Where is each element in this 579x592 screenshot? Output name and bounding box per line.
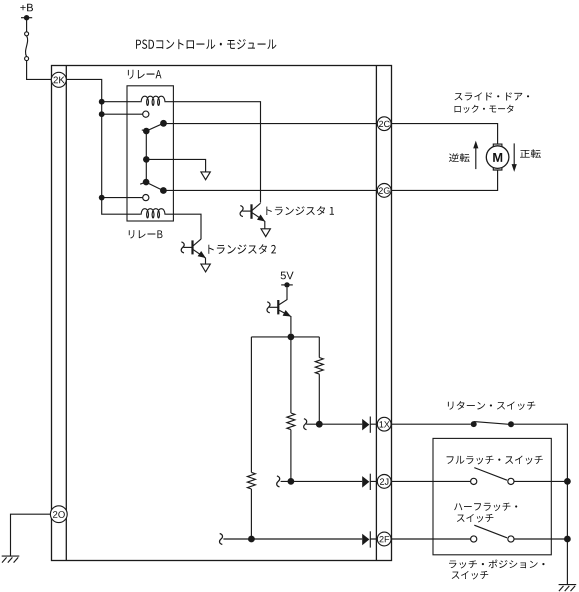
junction 2J row <box>288 478 295 485</box>
relay common link wire <box>145 131 147 182</box>
relay A arm contact dot <box>160 120 167 127</box>
wire half-latch switch to right rail <box>514 538 567 540</box>
module right inner wall <box>375 66 377 561</box>
junction relay feed / contact B <box>99 195 105 201</box>
text label: 逆転 <box>449 153 470 162</box>
+B terminal tick <box>21 17 32 19</box>
text label: リターン・スイッチ <box>448 401 535 410</box>
text label: ラッチ・ポジション・ <box>449 560 545 569</box>
diode D2 cathode bar <box>369 474 371 490</box>
pin 2O <box>53 511 65 518</box>
connector 1X circle <box>377 417 391 431</box>
wire full-latch switch to right rail <box>514 480 567 482</box>
motor arrow up line <box>475 147 477 169</box>
junction relay feed / coil A <box>99 99 105 105</box>
text label: スイッチ <box>452 571 488 580</box>
half-latch switch right contact <box>508 536 514 542</box>
wire 2C to motor <box>391 124 498 146</box>
wire relay feed to coil A <box>102 101 141 103</box>
wire +B feed down to 2K <box>27 18 52 79</box>
wire return switch to right rail, down to ground <box>514 424 568 584</box>
motor circle M <box>486 146 509 169</box>
wire 2G row inside module <box>163 189 377 191</box>
wire left branch + resistor R1 leads <box>250 337 252 539</box>
wire coil A to transistor 1 collector <box>166 102 261 203</box>
transistor 2 base lead <box>184 246 193 248</box>
relay A pivot dot <box>143 128 150 135</box>
diode D1 at 1X <box>362 419 369 431</box>
wire resistor-top node row <box>251 336 319 338</box>
text label: ロック・モータ <box>454 105 513 113</box>
pin 1X <box>380 421 390 427</box>
relay coil B <box>140 209 165 218</box>
full-latch switch right contact <box>508 478 514 484</box>
wire relay feed to contact A <box>102 113 143 115</box>
half-latch switch left contact <box>471 536 477 542</box>
chassis ground bottom-left <box>2 556 20 563</box>
motor arrow down line <box>513 143 515 165</box>
pin 2K <box>54 77 65 84</box>
chassis ground bottom-right <box>559 585 577 592</box>
motor arrow up head <box>473 141 478 149</box>
wire 1X to return switch <box>391 423 471 425</box>
junction right rail / half-latch <box>564 536 571 543</box>
junction relay common / ground tap <box>143 156 150 163</box>
full-latch switch arm <box>474 468 507 481</box>
wire 2F row <box>223 538 377 540</box>
pin 2C <box>379 121 390 127</box>
wire right branch + resistor R3 leads <box>318 337 320 424</box>
transistor 1 emitter arrow <box>257 215 265 222</box>
junction right rail / full-latch <box>564 478 571 485</box>
relay coil A <box>140 96 165 105</box>
return switch left dot <box>471 421 477 427</box>
+B terminal dot <box>24 15 29 20</box>
relay A fixed contact circle <box>143 111 149 117</box>
return switch arm <box>474 422 511 425</box>
motor letter M <box>493 153 502 162</box>
relay B arm contact dot <box>160 187 167 194</box>
module left inner wall <box>65 66 67 561</box>
wire 5V to transistor collector <box>279 288 287 305</box>
transistor 2 emitter arrow <box>198 251 206 258</box>
wire motor to 2G <box>391 170 498 191</box>
connector 2J circle <box>377 475 391 489</box>
connector 2G circle <box>377 184 391 198</box>
text label: ハーフラッチ・ <box>454 503 517 512</box>
relay A arm <box>142 123 164 131</box>
connector 2K circle <box>51 72 66 87</box>
half-latch switch arm <box>474 525 507 538</box>
diode D3 at 2F <box>362 534 369 546</box>
diode D1 cathode bar <box>369 417 371 433</box>
relay B arm <box>140 182 163 191</box>
break squiggle transistor 5V base <box>267 302 270 313</box>
text label: PSDコントロール・モジュール <box>136 39 276 49</box>
motor body rects <box>493 144 502 170</box>
wire relay feed to contact B <box>102 197 143 199</box>
ground triangle below transistor 1 <box>261 229 270 237</box>
break squiggle 1X row <box>304 419 307 430</box>
text label: フルラッチ・スイッチ <box>447 456 543 465</box>
transistor 1 collector/emitter <box>252 203 264 228</box>
break squiggle 2J row <box>277 476 280 487</box>
latch position switch box <box>433 438 551 554</box>
wire 2C row inside module <box>163 123 377 125</box>
motor arrow down head <box>512 164 517 172</box>
text label: 正転 <box>520 149 541 158</box>
resistor R3 <box>315 358 323 375</box>
transistor 1 base lead <box>242 210 251 212</box>
pin 2J <box>380 478 388 484</box>
node 5V <box>281 272 294 280</box>
text label: リレーA <box>128 70 162 79</box>
wire coil B to transistor 2 collector <box>166 214 202 239</box>
text label: スイッチ <box>457 514 493 523</box>
relay B pivot dot <box>143 179 150 186</box>
resistor R1 <box>247 472 255 489</box>
full-latch switch left contact <box>471 478 477 484</box>
text label: トランジスタ 2 <box>208 244 276 254</box>
pin 2G <box>379 187 390 193</box>
diode D2 at 2J <box>362 476 369 488</box>
ground triangle below transistor 2 <box>201 264 210 272</box>
break squiggle transistor 2 base <box>181 242 184 253</box>
junction relay feed / contact A <box>99 111 105 117</box>
transistor 5V emitter <box>279 310 291 333</box>
diode D3 cathode bar <box>369 531 371 547</box>
connector 2C circle <box>377 117 391 131</box>
junction node resistor network <box>288 334 295 341</box>
connector 2F circle <box>377 532 391 546</box>
transistor 5V emitter arrow <box>283 310 291 317</box>
wire relay common to ground <box>146 159 205 172</box>
relay B fixed contact circle <box>143 195 149 201</box>
break squiggle 2F row <box>219 534 222 545</box>
5V terminal dot <box>284 282 289 287</box>
text label: トランジスタ 1 <box>266 206 334 215</box>
wire 2F to half-latch switch <box>391 538 471 540</box>
text label: リレーB <box>129 230 163 238</box>
wire 1X row <box>306 423 377 425</box>
wire 2J to full-latch switch <box>391 480 471 482</box>
wire 2J row <box>281 480 378 482</box>
connector 2O circle <box>50 506 67 523</box>
fusible link wavy wire <box>26 36 28 57</box>
transistor 5V base lead <box>269 306 277 308</box>
transistor 2 base bar <box>191 240 193 254</box>
relay box <box>127 86 173 221</box>
fuse bottom circle <box>25 57 29 61</box>
5V terminal tick <box>281 284 293 286</box>
wire middle branch + resistor R2 leads <box>290 337 292 482</box>
node +B <box>20 4 33 12</box>
wire 2K to relay feed rail <box>66 79 140 214</box>
ground triangle below relay common <box>201 172 210 180</box>
junction 1X row <box>316 421 323 428</box>
junction 2F row <box>248 536 255 543</box>
transistor 5V base bar <box>277 300 279 314</box>
fuse top circle <box>25 32 29 36</box>
text label: スライド・ドア・ <box>455 92 530 100</box>
resistor R2 <box>287 413 295 430</box>
break squiggle transistor 1 base <box>240 206 243 217</box>
return switch right dot <box>508 421 514 427</box>
PSD control module box outline <box>52 66 392 561</box>
pin 2F <box>380 536 390 542</box>
wire 2O to chassis ground <box>11 514 51 556</box>
transistor 1 base bar <box>250 204 252 219</box>
transistor 2 collector/emitter <box>193 239 205 264</box>
